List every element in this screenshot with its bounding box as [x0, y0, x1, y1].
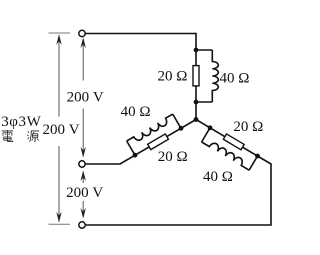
wire coil loop right branch: [202, 128, 258, 170]
wire coil loop left branch: [127, 114, 181, 155]
svg-text:200 V: 200 V: [66, 185, 103, 201]
node dot left branch lower: [133, 153, 138, 158]
svg-text:20 Ω: 20 Ω: [233, 119, 263, 135]
node dot right branch lower: [255, 154, 260, 159]
svg-text:20 Ω: 20 Ω: [158, 69, 188, 85]
dimension outer extension tick bottom: [49, 223, 71, 225]
dimension arrow V-W up: [81, 171, 86, 182]
dimension arrow U-V up: [81, 38, 86, 49]
svg-text:20 Ω: 20 Ω: [158, 149, 188, 165]
wire coil loop top branch: [196, 50, 212, 102]
resistor R3 20ohm (right branch): [223, 134, 244, 150]
svg-text:3φ3W: 3φ3W: [1, 114, 41, 130]
resistor R1 20ohm (top branch): [193, 66, 199, 86]
label kanji GEN (source): [27, 131, 39, 142]
inductor L3 40ohm (right branch): [202, 142, 250, 170]
resistor R2 20ohm (left branch): [148, 134, 169, 150]
dimension arrow V-W down: [81, 208, 86, 219]
inductor L1 40ohm (top branch): [212, 50, 218, 102]
terminal W (bottom): [79, 222, 85, 228]
dimension outer extension tick top: [49, 32, 71, 34]
terminal U (top): [79, 30, 85, 36]
label kanji DEN (electric): [2, 130, 13, 141]
node dot left branch upper: [179, 126, 184, 131]
node N (star point): [194, 117, 199, 122]
dimension line 200V (V to W): [82, 172, 84, 217]
wire top phase (from terminal U to top branch): [85, 34, 196, 51]
wire top branch main (node A to neutral node N): [195, 50, 197, 120]
wire right branch main (node A2 to neutral node N): [196, 120, 258, 157]
dimension line outer 200V (U to W): [58, 35, 60, 222]
wire left branch main (node A1 to neutral node N): [135, 120, 196, 156]
svg-text:40 Ω: 40 Ω: [121, 104, 151, 120]
dimension arrow outer up: [56, 34, 61, 45]
svg-text:200 V: 200 V: [67, 90, 104, 106]
node dot right branch upper: [208, 125, 213, 130]
dimension arrow outer down: [56, 212, 61, 223]
node dot top branch lower: [194, 100, 199, 105]
inductor L2 40ohm (left branch): [127, 114, 173, 141]
terminal V (middle): [79, 161, 85, 167]
wire bottom phase (terminal W along bottom and up right side): [85, 156, 271, 225]
svg-text:40 Ω: 40 Ω: [220, 71, 250, 87]
dimension arrow U-V down: [81, 147, 86, 158]
svg-text:40 Ω: 40 Ω: [203, 169, 233, 185]
wire middle phase (from terminal V to left branch): [85, 155, 135, 164]
dimension line 200V (U to V): [82, 39, 84, 156]
node dot top branch upper: [194, 48, 199, 53]
svg-text:200 V: 200 V: [42, 122, 79, 138]
